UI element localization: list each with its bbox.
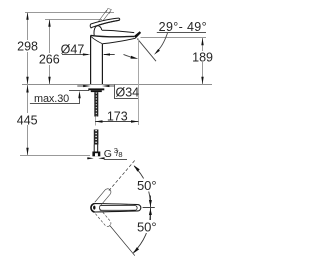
- lever plan outline: [91, 204, 141, 213]
- svg-text:29°- 49°: 29°- 49°: [159, 20, 207, 34]
- dimension 445 vertical line: [27, 85, 29, 156]
- hose lower segment: [94, 130, 99, 145]
- mounting nut: [91, 90, 102, 92]
- ghost lever lower (50 deg down, dashed): [95, 209, 112, 228]
- lower 50 deg limit line: [110, 225, 135, 256]
- ghost lever upper (50 deg up): [95, 187, 112, 206]
- svg-text:189: 189: [192, 50, 213, 64]
- spout top lower line: [91, 35, 134, 36]
- dimension 298 vertical line: [27, 13, 29, 85]
- lever centerline extension: [143, 207, 155, 209]
- svg-text:50°: 50°: [137, 220, 157, 235]
- lever plan inner blade: [100, 205, 138, 210]
- body right edge: [101, 44, 103, 84]
- dimension 266 vertical line: [49, 20, 51, 85]
- angular reference tick at lever tip: [150, 196, 152, 221]
- hose end nut: [92, 152, 100, 157]
- top 50 deg arc: [134, 166, 150, 201]
- extension line (lever height 266): [45, 19, 102, 21]
- svg-text:266: 266: [39, 52, 60, 66]
- lever blade (down position): [90, 18, 120, 28]
- spout height extension line: [141, 37, 207, 39]
- upper 50 deg limit line (dashed): [109, 160, 135, 191]
- label 29°-49° underline leader: [157, 32, 206, 34]
- spout underside curve: [102, 38, 135, 44]
- aerator wedge: [134, 31, 141, 38]
- dimension 173: [95, 121, 139, 123]
- deck underside line: [69, 90, 89, 92]
- svg-text:298: 298: [17, 40, 38, 54]
- svg-text:Ø34: Ø34: [116, 86, 140, 100]
- hose end extension line (445): [20, 155, 90, 157]
- label Ø34 box: [107, 85, 138, 99]
- faucet axis extension line: [95, 116, 97, 126]
- G 3/8 arrows: [87, 157, 89, 159]
- svg-text:173: 173: [107, 110, 128, 124]
- dimension 189 vertical line: [202, 38, 204, 85]
- label G 3/8: [104, 159, 127, 161]
- svg-text:445: 445: [17, 113, 38, 127]
- threaded stud upper: [94, 92, 98, 116]
- pivot cap arc: [91, 204, 95, 213]
- stream angle diagonal line: [137, 39, 156, 62]
- lever raised ghost: [97, 8, 111, 24]
- deck / counter line: [22, 84, 212, 86]
- svg-text:50°: 50°: [137, 178, 157, 193]
- extension line top (lever raised height 298): [25, 12, 114, 14]
- body left edge: [90, 35, 92, 84]
- Ø47 right arrow: [104, 54, 115, 56]
- Ø34 arrows at hole: [77, 85, 84, 87]
- angle leader arc to diagonal: [157, 33, 168, 52]
- neck inner curve: [91, 37, 102, 44]
- svg-text:8: 8: [118, 150, 122, 159]
- pivot hole: [93, 206, 95, 210]
- spout top outer line: [102, 30, 134, 32]
- washer: [88, 88, 104, 90]
- pivot dome: [94, 26, 102, 36]
- bottom 50° arc: [133, 214, 150, 253]
- small leader arrow to vertical stream line: [124, 54, 133, 57]
- svg-text:G: G: [104, 148, 112, 160]
- spout tip extension line down (stream): [138, 39, 140, 126]
